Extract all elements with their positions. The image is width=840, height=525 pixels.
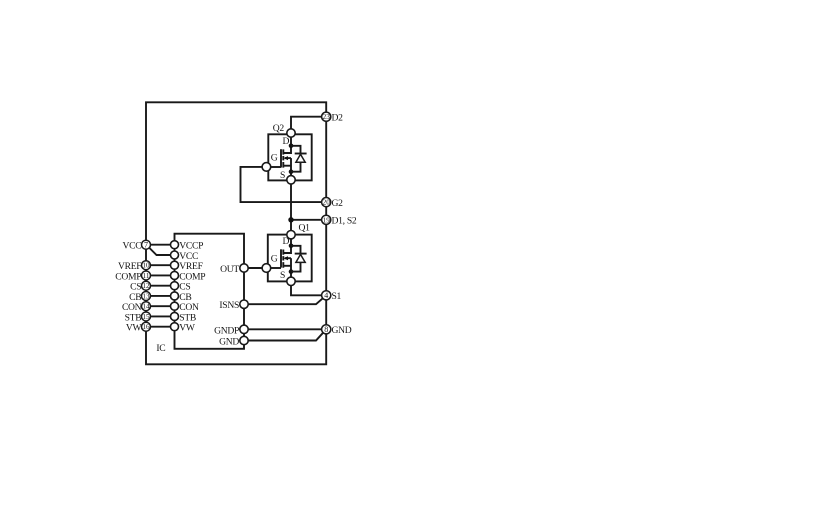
transistor Q1 source junction dot — [289, 269, 294, 274]
transistor Q1 body arrow — [285, 257, 291, 259]
transistor Q2 body box — [268, 134, 311, 180]
wire outer loop (top/left/right/bottom borders connecting terminals) — [146, 102, 326, 364]
transistor Q2 gate lead — [266, 166, 281, 168]
wire COMP terminal to COMP pin — [146, 274, 175, 276]
transistor Q2 drain pin circle — [287, 129, 295, 137]
svg-text:VW: VW — [126, 323, 143, 334]
terminal 15 STB — [142, 312, 151, 321]
terminal 20 G2 — [322, 198, 331, 207]
IC pin circle GNDP — [240, 325, 248, 333]
transistor Q2 source stub — [283, 165, 291, 167]
transistor Q1 drain junction dot — [289, 244, 294, 249]
IC pin circle VCC — [171, 251, 179, 259]
transistor Q1 internals: drain link — [283, 235, 291, 253]
transistor Q2 channel segments — [282, 149, 284, 167]
terminal 7 VCC — [142, 240, 151, 249]
transistor Q2 drain junction dot — [289, 144, 294, 149]
terminal 10 VREF — [142, 261, 151, 270]
svg-text:G2: G2 — [332, 198, 344, 209]
IC pin circle GND — [240, 336, 248, 344]
svg-text:S: S — [280, 170, 285, 181]
transistor Q1 drain pin circle — [287, 231, 295, 239]
svg-text:ISNS: ISNS — [219, 300, 239, 311]
wire CON terminal to CON pin — [146, 305, 175, 307]
wire GND pin to GND terminal — [244, 329, 326, 340]
transistor Q1 source stub — [283, 265, 291, 267]
svg-text:7: 7 — [144, 241, 148, 250]
wire ISNS pin to S1 terminal — [244, 295, 326, 304]
IC pin circle CB — [171, 292, 179, 300]
wire OUT pin to Q1 gate — [244, 267, 266, 269]
IC pin circle CON — [171, 302, 179, 310]
transistor Q1 channel segments — [282, 250, 284, 268]
svg-text:VCC: VCC — [122, 241, 141, 252]
transistor Q1 gate bar — [280, 249, 282, 267]
svg-text:11: 11 — [143, 272, 150, 280]
svg-text:8: 8 — [324, 325, 328, 334]
svg-text:Q2: Q2 — [273, 123, 285, 134]
IC pin circle COMP — [171, 271, 179, 279]
IC pin circle VCCP — [171, 241, 179, 249]
transistor Q1 gate pin circle — [262, 264, 271, 273]
terminal 14 CON — [142, 302, 151, 311]
svg-text:VW: VW — [179, 323, 196, 334]
transistor Q1 source pin circle — [287, 277, 295, 285]
wire Q1 source to S1 terminal — [291, 281, 326, 295]
transistor Q2 gate bar — [280, 149, 282, 167]
transistor Q1 body/source vertical — [290, 258, 292, 281]
svg-text:14: 14 — [142, 303, 150, 311]
svg-text:12: 12 — [142, 282, 150, 290]
terminal 12 CS — [142, 281, 151, 290]
IC pin circle OUT — [240, 264, 248, 272]
transistor Q1 body box — [268, 235, 312, 282]
wire VW terminal to VW pin — [146, 326, 175, 328]
IC pin circle ISNS — [240, 300, 248, 308]
IC pin circle VREF — [171, 261, 179, 269]
svg-text:D: D — [283, 136, 290, 147]
svg-text:S1: S1 — [332, 291, 342, 302]
svg-text:GND: GND — [219, 337, 239, 348]
transistor Q2 gate pin circle — [262, 163, 271, 172]
IC pin circle CS — [171, 282, 179, 290]
svg-text:23: 23 — [323, 113, 331, 121]
transistor Q2 source pin circle — [287, 176, 295, 184]
wire STB terminal to STB pin — [146, 315, 175, 317]
svg-text:13: 13 — [142, 292, 150, 300]
IC pin circle VW — [171, 323, 179, 331]
wire VCC terminal 7 to VCCP pin — [146, 244, 175, 246]
terminal 8 GND — [322, 325, 331, 334]
svg-text:G: G — [271, 152, 278, 163]
transistor Q2 source junction dot — [289, 169, 294, 174]
svg-text:OUT: OUT — [220, 264, 239, 275]
wire GNDP pin to GND terminal — [244, 328, 326, 330]
transistor Q1 gate lead — [266, 267, 281, 269]
IC pin circle STB — [171, 312, 179, 320]
svg-text:20: 20 — [323, 199, 331, 207]
svg-text:S: S — [280, 270, 285, 281]
svg-text:GND: GND — [332, 325, 352, 336]
diode Q1 body diode — [291, 246, 301, 254]
svg-text:D: D — [283, 236, 290, 247]
svg-text:16: 16 — [142, 323, 150, 331]
wire VCC terminal 7 split to VCC pin — [148, 246, 175, 255]
svg-text:G: G — [271, 254, 278, 265]
terminal 13 CB — [142, 291, 151, 300]
wire D2 terminal to Q2 drain — [291, 117, 326, 133]
wire VREF terminal to VREF pin — [146, 264, 175, 266]
svg-text:Q1: Q1 — [299, 223, 311, 234]
wire Q2 gate routing to G2 terminal — [241, 167, 327, 202]
transistor Q2 internals: drain link — [283, 133, 291, 153]
svg-text:GNDP: GNDP — [214, 325, 239, 336]
wire Q2 source down to node D1,S2 and Q1 drain — [290, 180, 292, 235]
wire CS terminal to CS pin — [146, 285, 175, 287]
IC U1 body — [175, 234, 245, 349]
diode Q2 body diode — [291, 146, 301, 154]
terminal 4 S1 — [322, 291, 331, 300]
transistor Q2 body arrow — [285, 157, 291, 159]
wire node D1,S2 branch to terminal 19 — [291, 219, 326, 221]
junction node D1,S2 — [288, 217, 293, 222]
svg-text:D1, S2: D1, S2 — [332, 216, 357, 227]
svg-text:19: 19 — [323, 216, 331, 224]
svg-text:15: 15 — [142, 313, 150, 321]
terminal 23 D2 — [322, 112, 331, 121]
terminal 19 D1,S2 — [322, 215, 331, 224]
wire CB terminal to CB pin — [146, 295, 175, 297]
svg-text:D2: D2 — [332, 113, 344, 124]
transistor Q2 body/source vertical — [290, 158, 292, 180]
terminal 11 COMP — [142, 271, 151, 280]
svg-text:IC: IC — [156, 343, 165, 354]
terminal 16 VW — [142, 322, 151, 331]
svg-text:10: 10 — [142, 262, 150, 270]
svg-text:4: 4 — [324, 291, 328, 300]
